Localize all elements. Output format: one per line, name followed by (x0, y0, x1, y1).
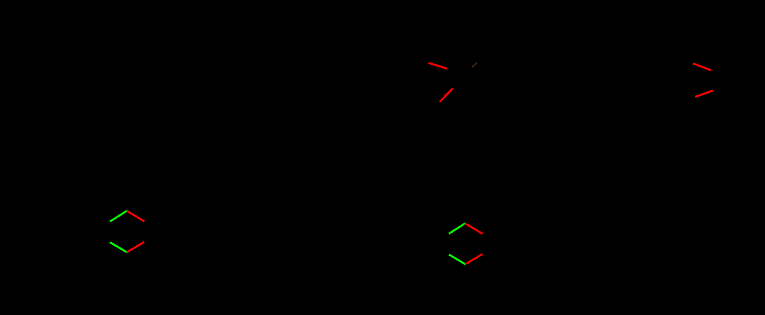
hexagon ring 2: lower-left edge (green) (449, 255, 465, 265)
hexagon ring 2: lower-right edge (red) (465, 254, 482, 264)
hexagon ring 1: upper-left edge (green) (110, 211, 127, 222)
epoxide C-O bond highlight (red), right molecule lower (695, 91, 713, 97)
epoxide C-O bond highlight (red), right molecule upper (693, 63, 711, 70)
epoxide C-O bond highlight (red), middle molecule upper (428, 63, 447, 69)
hexagon ring 1: lower-left edge (green) (110, 242, 127, 252)
epoxide C-O bond highlight (red), middle molecule lower (440, 89, 453, 102)
faint dark bond remnant, middle molecule (472, 63, 477, 67)
hexagon ring 1: upper-right edge (red) (127, 211, 145, 222)
hexagon ring 1: lower-right edge (red) (127, 242, 144, 252)
hexagon ring 2: upper-left edge (green) (449, 223, 465, 233)
hexagon ring 2: upper-right edge (red) (465, 223, 483, 234)
